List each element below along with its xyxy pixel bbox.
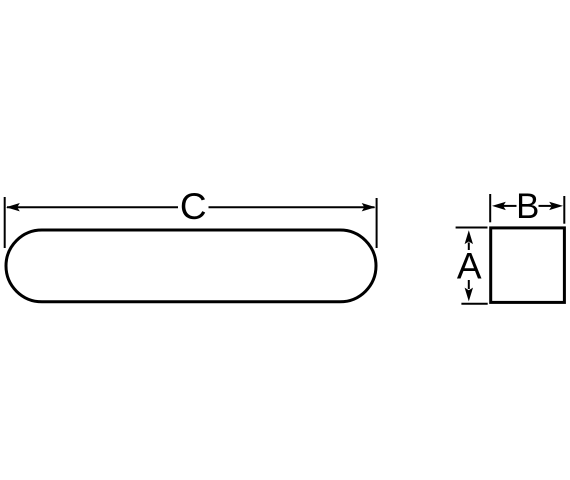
dimension C: line right segment bbox=[209, 206, 375, 208]
key cross-section: square outline bbox=[491, 228, 565, 303]
dimension C: left arrowhead bbox=[6, 203, 20, 211]
dimension A: up arrowhead bbox=[465, 230, 473, 244]
dimension A: lower stem bbox=[468, 280, 470, 289]
dimension B: left extension line bbox=[489, 194, 491, 222]
dimension B: line left segment bbox=[503, 205, 517, 207]
dimension C: right arrowhead bbox=[362, 203, 376, 211]
dimension B: right arrowhead bbox=[549, 202, 563, 210]
dimension A: top extension tick bbox=[456, 227, 488, 229]
svg-text:B: B bbox=[516, 187, 539, 226]
dimension B: right extension line bbox=[563, 196, 565, 224]
dimension B: left arrowhead bbox=[492, 202, 506, 210]
svg-text:C: C bbox=[180, 186, 207, 227]
svg-text:A: A bbox=[457, 246, 482, 287]
dimension A: down arrowhead bbox=[465, 288, 473, 302]
key plan view: stadium outline bbox=[6, 230, 376, 302]
dimension B: line right segment bbox=[539, 205, 552, 207]
dimension C: right extension line bbox=[376, 198, 378, 248]
dimension A: bottom extension tick bbox=[461, 303, 487, 305]
dimension C: line left segment bbox=[7, 206, 178, 208]
dimension C: left extension line bbox=[4, 197, 6, 248]
dimension A: upper stem bbox=[468, 243, 470, 251]
